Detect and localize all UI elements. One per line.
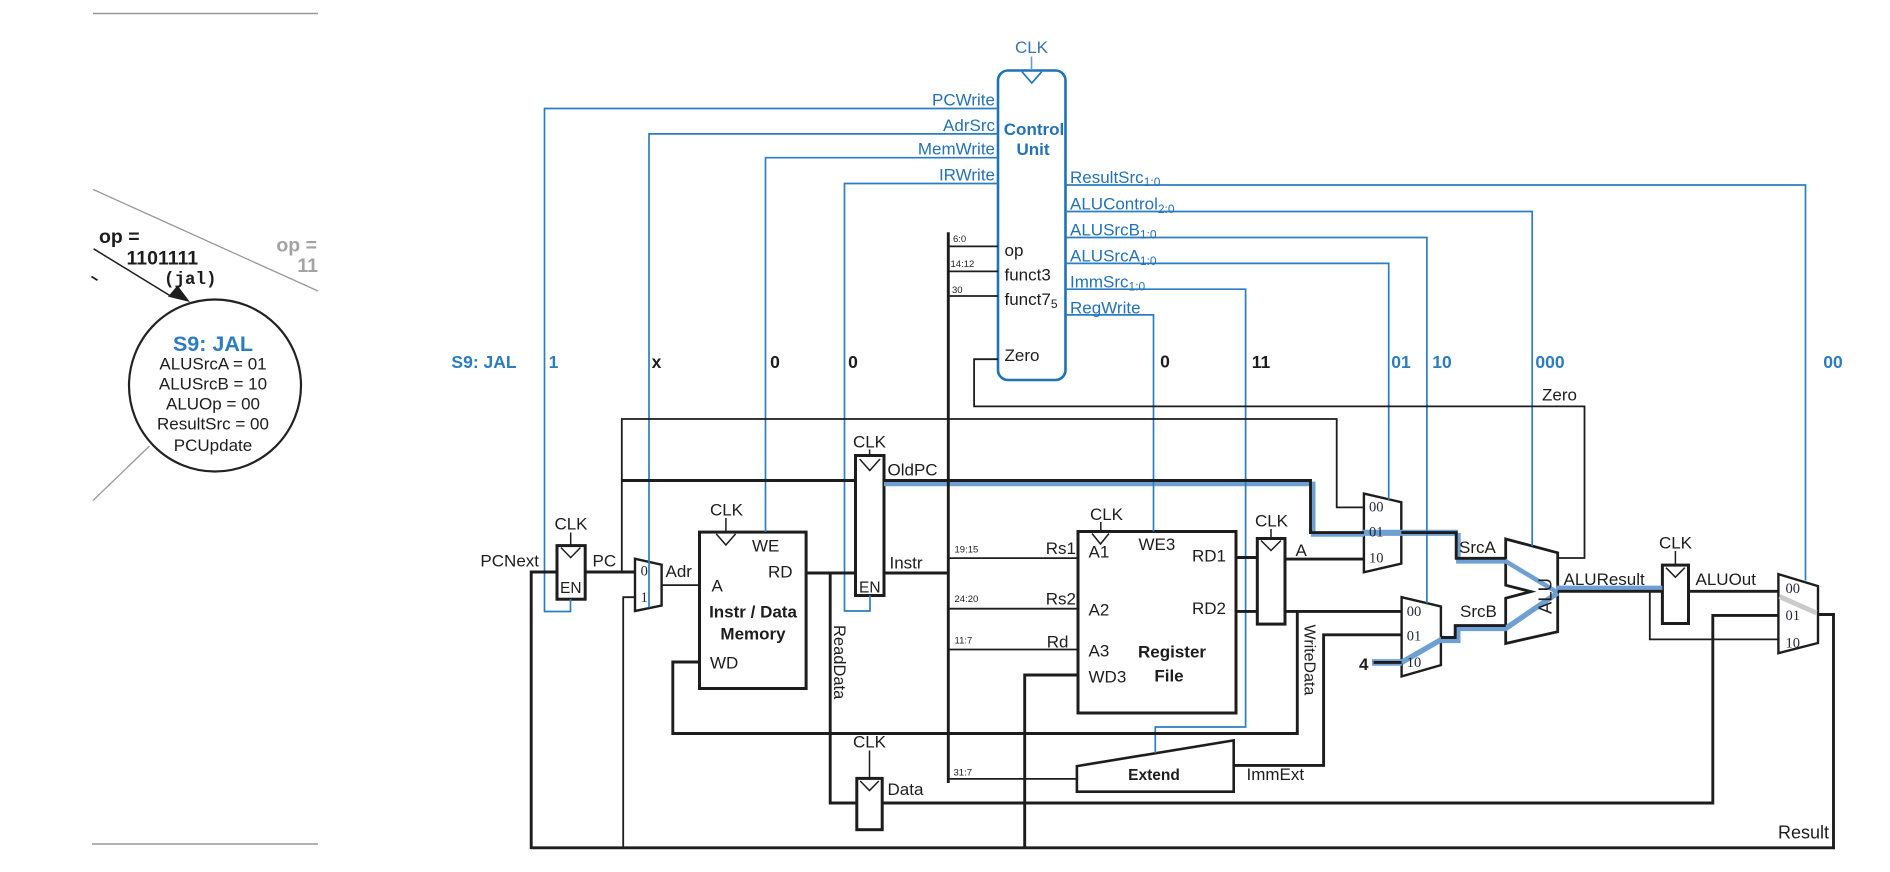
svg-text:Memory: Memory [720, 625, 786, 644]
svg-text:File: File [1154, 667, 1183, 686]
svg-text:Instr / Data: Instr / Data [709, 603, 797, 622]
svg-text:ALU: ALU [1535, 578, 1556, 614]
svg-text:01: 01 [1369, 524, 1384, 540]
svg-text:CLK: CLK [1255, 512, 1289, 531]
svg-text:S9: JAL: S9: JAL [451, 352, 516, 372]
svg-text:CLK: CLK [710, 501, 744, 520]
svg-text:0: 0 [770, 352, 780, 372]
svg-text:Adr: Adr [666, 562, 693, 581]
svg-text:PC: PC [593, 552, 617, 571]
svg-text:SrcA: SrcA [1459, 538, 1497, 557]
svg-text:30: 30 [952, 285, 963, 296]
svg-text:PCUpdate: PCUpdate [174, 436, 252, 455]
svg-text:RD2: RD2 [1192, 599, 1226, 618]
svg-text:14:12: 14:12 [951, 259, 975, 270]
svg-text:ResultSrc = 00: ResultSrc = 00 [157, 415, 269, 434]
svg-text:op =: op = [99, 226, 140, 248]
svg-text:CLK: CLK [853, 433, 887, 452]
svg-text:PCWrite: PCWrite [932, 90, 995, 109]
svg-text:funct75: funct75 [1005, 290, 1058, 311]
svg-text:Rs2: Rs2 [1046, 590, 1076, 609]
svg-text:S9: JAL: S9: JAL [173, 332, 253, 356]
svg-text:SrcB: SrcB [1460, 602, 1497, 621]
svg-text:6:0: 6:0 [953, 234, 966, 245]
svg-text:x: x [652, 352, 662, 372]
svg-text:11: 11 [297, 255, 318, 277]
svg-text:ReadData: ReadData [830, 625, 848, 700]
svg-text:Zero: Zero [1542, 386, 1577, 405]
svg-text:RD1: RD1 [1192, 547, 1226, 566]
svg-text:Unit: Unit [1016, 140, 1049, 159]
svg-text:A1: A1 [1089, 543, 1110, 562]
svg-text:0: 0 [1160, 352, 1170, 372]
svg-text:A2: A2 [1089, 601, 1110, 620]
svg-text:RegWrite: RegWrite [1070, 298, 1141, 317]
svg-text:10: 10 [1407, 655, 1422, 671]
svg-text:WD: WD [710, 654, 738, 673]
svg-text:0: 0 [641, 564, 648, 580]
svg-text:1: 1 [641, 590, 648, 606]
svg-text:EN: EN [859, 580, 881, 597]
svg-text:0: 0 [848, 352, 858, 372]
svg-text:CLK: CLK [554, 515, 588, 534]
svg-text:OldPC: OldPC [888, 461, 938, 480]
svg-text:ALUOut: ALUOut [1696, 570, 1757, 589]
svg-text:MemWrite: MemWrite [918, 140, 995, 159]
svg-text:CLK: CLK [1090, 505, 1124, 524]
svg-text:A: A [712, 577, 724, 596]
svg-text:10: 10 [1369, 551, 1384, 567]
svg-text:24:20: 24:20 [955, 594, 979, 605]
svg-text:CLK: CLK [1015, 38, 1049, 57]
svg-text:01: 01 [1391, 352, 1411, 372]
svg-text:00: 00 [1407, 604, 1422, 620]
svg-text:4: 4 [1359, 655, 1369, 674]
svg-text:CLK: CLK [1659, 534, 1693, 553]
svg-text:00: 00 [1786, 581, 1801, 597]
svg-text:PCNext: PCNext [480, 552, 539, 571]
svg-text:10: 10 [1432, 352, 1452, 372]
svg-text:A3: A3 [1089, 642, 1110, 661]
svg-text:A: A [1296, 541, 1308, 560]
svg-text:Register: Register [1138, 643, 1206, 662]
svg-text:ALUSrcA = 01: ALUSrcA = 01 [159, 355, 266, 374]
svg-text:Rs1: Rs1 [1046, 539, 1076, 558]
svg-text:000: 000 [1535, 352, 1564, 372]
svg-text:19:15: 19:15 [955, 545, 979, 556]
svg-text:11:7: 11:7 [955, 636, 973, 647]
svg-text:op =: op = [276, 235, 317, 257]
svg-text:ImmExt: ImmExt [1247, 765, 1305, 784]
svg-text:00: 00 [1823, 352, 1843, 372]
svg-text:Extend: Extend [1128, 767, 1180, 784]
svg-text:Zero: Zero [1005, 346, 1040, 365]
svg-text:ALUResult: ALUResult [1564, 570, 1646, 589]
svg-text:Control: Control [1004, 120, 1064, 139]
svg-text:Result: Result [1778, 823, 1829, 843]
svg-text:Instr: Instr [890, 554, 923, 573]
svg-text:10: 10 [1786, 636, 1801, 652]
svg-text:ALUOp = 00: ALUOp = 00 [166, 395, 260, 414]
svg-text:RD: RD [768, 563, 793, 582]
svg-text:(jal): (jal) [164, 270, 217, 290]
svg-text:00: 00 [1369, 499, 1384, 515]
svg-text:01: 01 [1786, 608, 1801, 624]
svg-text:1101111: 1101111 [127, 248, 199, 270]
svg-text:funct3: funct3 [1005, 266, 1051, 285]
svg-text:AdrSrc: AdrSrc [943, 116, 995, 135]
svg-text:EN: EN [560, 580, 582, 597]
svg-text:1: 1 [549, 352, 559, 372]
svg-text:op: op [1005, 241, 1024, 260]
svg-text:WD3: WD3 [1089, 668, 1127, 687]
svg-text:Data: Data [888, 780, 924, 799]
svg-text:WE3: WE3 [1139, 535, 1176, 554]
svg-text:IRWrite: IRWrite [939, 165, 995, 184]
svg-text:31:7: 31:7 [954, 768, 973, 779]
svg-text:Rd: Rd [1047, 633, 1069, 652]
svg-text:WriteData: WriteData [1301, 625, 1318, 696]
svg-text:ALUSrcB = 10: ALUSrcB = 10 [159, 375, 267, 394]
svg-text:CLK: CLK [853, 733, 887, 752]
svg-text:WE: WE [752, 537, 779, 556]
svg-text:01: 01 [1407, 629, 1422, 645]
svg-text:11: 11 [1252, 352, 1271, 372]
